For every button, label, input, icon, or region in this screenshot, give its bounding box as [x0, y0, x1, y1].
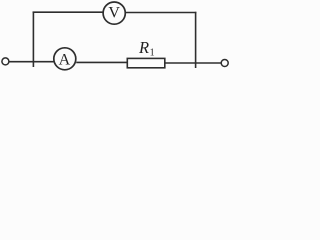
wire right vertical (top branch down to bottom wire, overshoots): [195, 12, 197, 68]
wire left vertical (top branch down to bottom wire, overshoots): [32, 12, 34, 68]
wire top-right horizontal (voltmeter to corner): [126, 12, 197, 14]
wire bottom-left (left terminal to ammeter): [9, 61, 53, 63]
voltmeter U-V circle: [103, 2, 125, 24]
svg-text:A: A: [59, 52, 71, 69]
resistor R1 body: [127, 58, 165, 67]
svg-text:V: V: [108, 5, 120, 22]
terminal left: [2, 58, 9, 65]
wire bottom-middle (ammeter to resistor): [76, 61, 127, 63]
svg-text:1: 1: [150, 47, 155, 58]
ammeter A circle: [54, 48, 76, 70]
svg-text:R: R: [138, 38, 149, 57]
wire bottom-right (resistor to right terminal): [165, 62, 221, 64]
wire top-left horizontal (corner to voltmeter): [33, 11, 104, 13]
terminal right: [221, 60, 228, 67]
